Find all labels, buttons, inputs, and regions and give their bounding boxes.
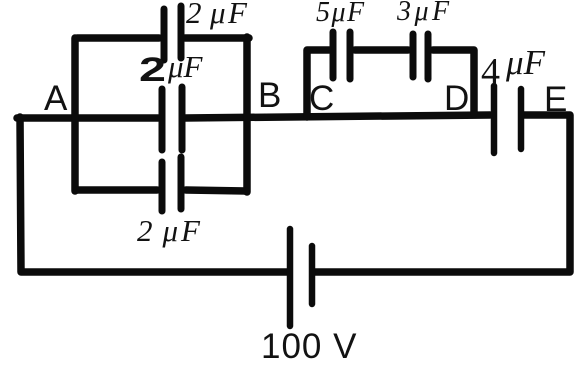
svg-text:3μF: 3μF: [396, 0, 453, 27]
svg-text:A: A: [44, 79, 68, 118]
wire bottom branch right segment: [186, 190, 246, 191]
wire main line A to middle cap: [17, 114, 158, 122]
svg-text:μF: μF: [505, 43, 546, 82]
wire C-D top branch middle segment: [355, 46, 408, 54]
wire A-B block right vertical: [243, 37, 251, 192]
svg-text:2μF: 2μF: [186, 0, 250, 30]
wire bottom branch left segment: [77, 186, 157, 194]
svg-text:B: B: [258, 76, 281, 115]
battery B1 plates: [290, 229, 312, 326]
svg-text:E: E: [544, 80, 567, 119]
wire top branch right segment: [185, 34, 249, 42]
svg-text:5μF: 5μF: [316, 0, 366, 28]
wire C-D top branch right + right vertical: [433, 50, 474, 114]
svg-text:4: 4: [481, 51, 500, 93]
svg-text:2: 2: [139, 51, 166, 89]
wire C-D left vertical + top branch start: [307, 50, 329, 117]
svg-text:μF: μF: [167, 49, 204, 84]
capacitor C5 3uF plates: [413, 34, 428, 79]
wire outer loop left+bottom-left: [20, 117, 288, 272]
wire top branch left segment: [77, 34, 159, 42]
wire bottom-right+right vertical: [315, 115, 570, 272]
wire main line middle cap to 4uF: [185, 115, 490, 118]
capacitor C2 middle 2uF plates: [162, 87, 182, 150]
svg-text:C: C: [309, 79, 334, 118]
wire A-B block left vertical: [71, 38, 79, 191]
svg-text:D: D: [444, 79, 469, 118]
svg-text:100 V: 100 V: [261, 327, 357, 366]
capacitor C6 4uF plates: [494, 86, 521, 153]
capacitor C3 bottom 2uF plates: [162, 157, 181, 211]
capacitor C1 top 2uF plates: [164, 6, 181, 60]
capacitor C4 5uF plates: [333, 32, 350, 79]
svg-text:2μF: 2μF: [137, 213, 203, 248]
